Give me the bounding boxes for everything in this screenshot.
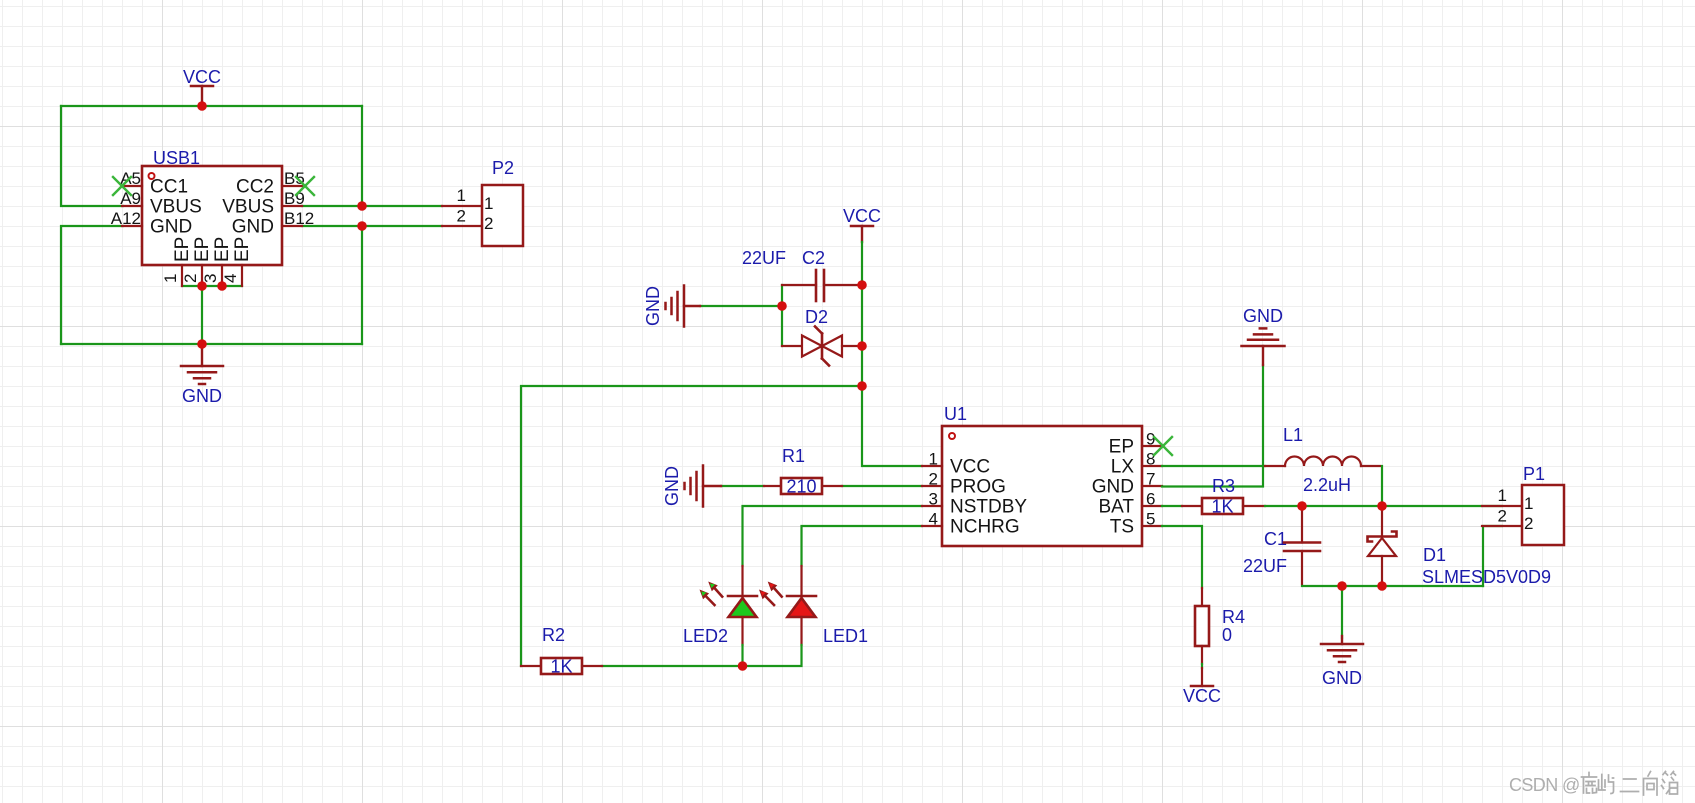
wire P1 pin2 loop xyxy=(1483,526,1502,586)
wire LED cathodes bottom xyxy=(741,645,743,666)
pin 6 BAT xyxy=(1142,505,1162,507)
svg-text:9: 9 xyxy=(1146,430,1155,449)
svg-text:4: 4 xyxy=(929,510,938,529)
svg-text:GND: GND xyxy=(1243,306,1283,326)
svg-text:D2: D2 xyxy=(805,307,828,327)
no-connect X on EP xyxy=(1154,437,1172,455)
svg-text:GND: GND xyxy=(232,217,274,238)
svg-text:1: 1 xyxy=(929,450,938,469)
watermark glyph 向 xyxy=(1644,772,1658,796)
LED1 emission arrows xyxy=(766,596,775,605)
svg-text:GND: GND xyxy=(1322,668,1362,688)
svg-text:1: 1 xyxy=(457,186,466,205)
svg-text:0: 0 xyxy=(1222,625,1232,645)
svg-text:VCC: VCC xyxy=(950,457,990,478)
power port VCC (middle) xyxy=(843,206,881,242)
wire GND pin7 xyxy=(1162,365,1263,487)
pin B12 xyxy=(282,225,302,227)
svg-text:EP: EP xyxy=(172,237,193,262)
svg-text:GND: GND xyxy=(182,386,222,406)
svg-text:1K: 1K xyxy=(1211,497,1233,517)
watermark glyph 箔 xyxy=(1662,772,1678,795)
svg-text:A9: A9 xyxy=(120,189,141,208)
junction D1 bottom xyxy=(1377,581,1387,591)
wire EP to GND xyxy=(201,286,203,344)
pin 1 VCC xyxy=(922,465,942,467)
no-connect X on A5 xyxy=(113,177,131,195)
svg-text:R2: R2 xyxy=(542,625,565,645)
pin 1 xyxy=(1482,505,1522,507)
wire PROG (R1 to pin2) xyxy=(842,485,922,487)
wire NCHRG (pin4 to LED1) xyxy=(802,526,923,566)
svg-text:B5: B5 xyxy=(284,169,305,188)
pin B5 xyxy=(282,185,302,187)
svg-text:LED1: LED1 xyxy=(823,626,868,646)
ground GND (flipped, above U1) xyxy=(1242,306,1285,365)
svg-text:GND: GND xyxy=(643,286,663,326)
wire TS to R4 xyxy=(1162,526,1202,588)
svg-text:A12: A12 xyxy=(111,209,141,228)
watermark xyxy=(1509,772,1678,796)
svg-text:EP: EP xyxy=(192,237,213,262)
junction EP2 xyxy=(197,281,207,291)
svg-text:R1: R1 xyxy=(782,446,805,466)
junction LED bottoms xyxy=(738,661,748,671)
wire GND to branch xyxy=(700,305,782,307)
wire long horizontal to R2 branch xyxy=(521,386,862,666)
LED2 (green) xyxy=(683,566,757,646)
ground GND (sideways, C2 branch) xyxy=(643,286,700,327)
junction C1 top xyxy=(1297,501,1307,511)
svg-text:B12: B12 xyxy=(284,209,314,228)
svg-text:22UF: 22UF xyxy=(742,248,786,268)
wire EP pins bar xyxy=(182,285,242,287)
pin 9 EP xyxy=(1142,445,1162,447)
pin B9 xyxy=(282,205,302,207)
no-connect X on B5 xyxy=(296,177,314,195)
resistor R1 xyxy=(764,446,842,497)
svg-text:22UF: 22UF xyxy=(1243,556,1287,576)
svg-text:VBUS: VBUS xyxy=(222,197,274,218)
wire bottom GND rail xyxy=(1302,585,1483,587)
svg-text:5: 5 xyxy=(1146,510,1155,529)
resistor R3 xyxy=(1182,476,1265,517)
wire GND3 to R1 xyxy=(721,485,764,487)
svg-text:3: 3 xyxy=(929,490,938,509)
resistor R4 xyxy=(1195,588,1245,686)
svg-text:SLMESD5V0D9: SLMESD5V0D9 xyxy=(1422,567,1551,587)
svg-text:GND: GND xyxy=(1092,477,1134,498)
wire left vertical GND xyxy=(61,226,123,344)
pin 2 xyxy=(442,225,482,227)
svg-text:P2: P2 xyxy=(492,158,514,178)
resistor R2 xyxy=(521,625,602,677)
svg-text:EP: EP xyxy=(232,237,253,262)
pin EP2 xyxy=(201,265,203,286)
svg-text:VCC: VCC xyxy=(1183,686,1221,706)
svg-text:R3: R3 xyxy=(1212,476,1235,496)
diode D2 (TVS bidirectional) xyxy=(782,307,862,366)
wire BAT to R3 xyxy=(1162,505,1182,507)
wire NSTDBY (pin3 to LED2) xyxy=(743,506,923,566)
pin 3 NSTDBY xyxy=(922,505,942,507)
svg-text:GND: GND xyxy=(150,217,192,238)
junction GND branch xyxy=(777,301,787,311)
wire VCC vertical trunk xyxy=(862,242,922,466)
wire L1 down to BAT line xyxy=(1381,466,1383,506)
junction B9 xyxy=(357,201,367,211)
capacitor C1 xyxy=(1243,506,1320,584)
junction EP3 xyxy=(217,281,227,291)
svg-text:GND: GND xyxy=(662,466,682,506)
junction trunk/left wire xyxy=(857,381,867,391)
svg-text:1K: 1K xyxy=(550,657,572,677)
svg-text:2: 2 xyxy=(929,470,938,489)
pin 1 xyxy=(442,205,482,207)
LED2 emission arrows xyxy=(706,596,715,605)
wire B9 to P2 pin1 xyxy=(302,205,442,207)
svg-text:1: 1 xyxy=(1498,486,1507,505)
svg-text:CSDN @: CSDN @ xyxy=(1509,775,1580,795)
svg-text:B9: B9 xyxy=(284,189,305,208)
svg-text:PROG: PROG xyxy=(950,477,1006,498)
svg-text:BAT: BAT xyxy=(1098,497,1134,518)
watermark glyph 二 xyxy=(1621,779,1639,792)
pin 5 TS xyxy=(1142,525,1162,527)
wire B12 to P2 pin2 xyxy=(302,225,442,227)
pin 4 NCHRG xyxy=(922,525,942,527)
svg-text:2.2uH: 2.2uH xyxy=(1303,475,1351,495)
svg-text:C1: C1 xyxy=(1264,529,1287,549)
watermark glyph 屿 xyxy=(1599,775,1614,794)
capacitor C2 xyxy=(742,248,862,301)
svg-text:2: 2 xyxy=(1524,514,1533,533)
svg-text:210: 210 xyxy=(786,477,816,497)
pin 7 GND xyxy=(1142,485,1162,487)
diode D1 (Schottky ESD) xyxy=(1368,506,1397,586)
svg-text:TS: TS xyxy=(1110,517,1134,538)
pin EP4 xyxy=(241,265,243,286)
svg-text:2: 2 xyxy=(484,214,493,233)
connector USB1 xyxy=(111,148,315,286)
IC U1 xyxy=(922,404,1162,546)
svg-text:LX: LX xyxy=(1111,457,1135,478)
junction D2 right xyxy=(857,341,867,351)
pin A5 xyxy=(122,185,142,187)
wire left vertical VBUS xyxy=(61,106,123,206)
ground GND (USB bottom) xyxy=(181,344,223,406)
svg-text:8: 8 xyxy=(1146,450,1155,469)
junction B12 xyxy=(357,221,367,231)
svg-text:D1: D1 xyxy=(1423,545,1446,565)
wire LX to L1 xyxy=(1162,465,1265,467)
svg-text:EP: EP xyxy=(1109,437,1134,458)
junction D1 top xyxy=(1377,501,1387,511)
connector P2 xyxy=(442,158,523,246)
wire C2/D2 left branch vertical xyxy=(781,285,783,346)
wire VCC top horizontal xyxy=(61,105,362,107)
power port VCC (inverted, R4) xyxy=(1183,686,1221,706)
svg-text:2: 2 xyxy=(1498,507,1507,526)
svg-text:2: 2 xyxy=(181,274,200,283)
svg-text:EP: EP xyxy=(212,237,233,262)
junction VCC/top wire xyxy=(197,101,207,111)
wire right vertical upper (VCC to B9) xyxy=(361,106,363,206)
svg-text:R4: R4 xyxy=(1222,607,1245,627)
svg-text:6: 6 xyxy=(1146,490,1155,509)
wire R2 to LED junction xyxy=(602,665,743,667)
pin EP1 xyxy=(181,265,183,286)
pin 2 PROG xyxy=(922,485,942,487)
pin 2 xyxy=(1482,525,1522,527)
svg-text:CC2: CC2 xyxy=(236,177,274,198)
svg-text:LED2: LED2 xyxy=(683,626,728,646)
svg-text:1: 1 xyxy=(484,194,493,213)
pin EP3 xyxy=(221,265,223,286)
svg-text:2: 2 xyxy=(457,207,466,226)
junction C2 right xyxy=(857,280,867,290)
svg-text:VCC: VCC xyxy=(843,206,881,226)
svg-text:NSTDBY: NSTDBY xyxy=(950,497,1027,518)
pin A9 xyxy=(122,205,142,207)
svg-text:P1: P1 xyxy=(1523,464,1545,484)
ground GND (sideways, R1) xyxy=(662,466,721,507)
svg-text:1: 1 xyxy=(1524,494,1533,513)
svg-text:1: 1 xyxy=(161,274,180,283)
inductor L1 xyxy=(1265,425,1380,495)
junction GND tap xyxy=(1337,581,1347,591)
wire GND tap xyxy=(1341,586,1343,638)
svg-text:U1: U1 xyxy=(944,404,967,424)
svg-text:C2: C2 xyxy=(802,248,825,268)
wire BAT line to P1 xyxy=(1265,505,1502,507)
svg-text:VCC: VCC xyxy=(183,67,221,87)
pin A12 xyxy=(122,225,142,227)
wire bottom GND horizontal xyxy=(61,343,362,345)
junction GND bottom xyxy=(197,339,207,349)
wire right vertical lower (B12 to GND) xyxy=(361,226,363,344)
LED1 (red) xyxy=(759,566,868,646)
watermark glyph 鹿 xyxy=(1582,773,1597,794)
svg-text:VBUS: VBUS xyxy=(150,197,202,218)
svg-text:L1: L1 xyxy=(1283,425,1303,445)
svg-text:7: 7 xyxy=(1146,470,1155,489)
connector P1 xyxy=(1482,464,1564,545)
ground GND (right) xyxy=(1321,636,1363,688)
pin 8 LX xyxy=(1142,465,1162,467)
svg-text:CC1: CC1 xyxy=(150,177,188,198)
svg-text:NCHRG: NCHRG xyxy=(950,517,1020,538)
power port VCC (USB) xyxy=(183,67,221,106)
